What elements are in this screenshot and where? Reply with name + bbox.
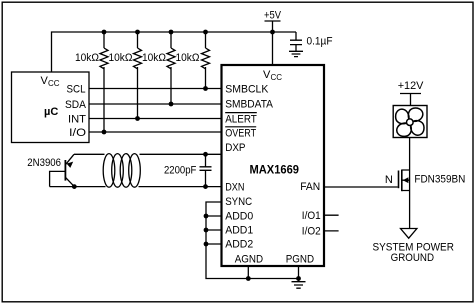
svg-text:ADD0: ADD0	[225, 210, 253, 222]
svg-text:N: N	[385, 174, 393, 186]
svg-text:ADD1: ADD1	[225, 224, 253, 236]
svg-text:CC: CC	[48, 79, 60, 88]
svg-text:PGND: PGND	[286, 253, 314, 265]
svg-text:SYNC: SYNC	[225, 196, 252, 208]
svg-text:10kΩ: 10kΩ	[75, 52, 99, 64]
svg-text:µC: µC	[44, 106, 58, 118]
svg-text:10kΩ: 10kΩ	[176, 52, 200, 64]
svg-text:SDA: SDA	[65, 99, 87, 111]
svg-text:I/O2: I/O2	[302, 226, 321, 238]
svg-text:10kΩ: 10kΩ	[142, 52, 166, 64]
svg-text:ALERT: ALERT	[225, 113, 257, 125]
svg-text:INT: INT	[68, 113, 86, 125]
svg-text:+5V: +5V	[264, 9, 282, 21]
svg-text:DXN: DXN	[225, 181, 244, 193]
svg-text:ADD2: ADD2	[225, 238, 253, 250]
svg-text:FAN: FAN	[300, 181, 320, 193]
svg-text:SCL: SCL	[67, 83, 86, 95]
svg-text:+12V: +12V	[398, 80, 424, 92]
svg-text:FDN359BN: FDN359BN	[414, 173, 465, 185]
svg-text:MAX1669: MAX1669	[250, 163, 300, 177]
svg-text:CC: CC	[271, 73, 283, 82]
svg-text:I/O: I/O	[69, 127, 87, 139]
svg-text:OVERT: OVERT	[225, 128, 256, 140]
svg-text:GROUND: GROUND	[391, 252, 434, 264]
svg-text:AGND: AGND	[235, 253, 263, 265]
svg-text:SMBCLK: SMBCLK	[225, 83, 269, 95]
svg-text:2N3906: 2N3906	[27, 157, 61, 169]
svg-text:10kΩ: 10kΩ	[109, 52, 133, 64]
svg-text:0.1µF: 0.1µF	[307, 35, 333, 47]
svg-text:DXP: DXP	[225, 142, 245, 154]
svg-text:SMBDATA: SMBDATA	[225, 98, 273, 110]
svg-text:I/O1: I/O1	[302, 210, 321, 222]
svg-text:2200pF: 2200pF	[164, 164, 197, 176]
